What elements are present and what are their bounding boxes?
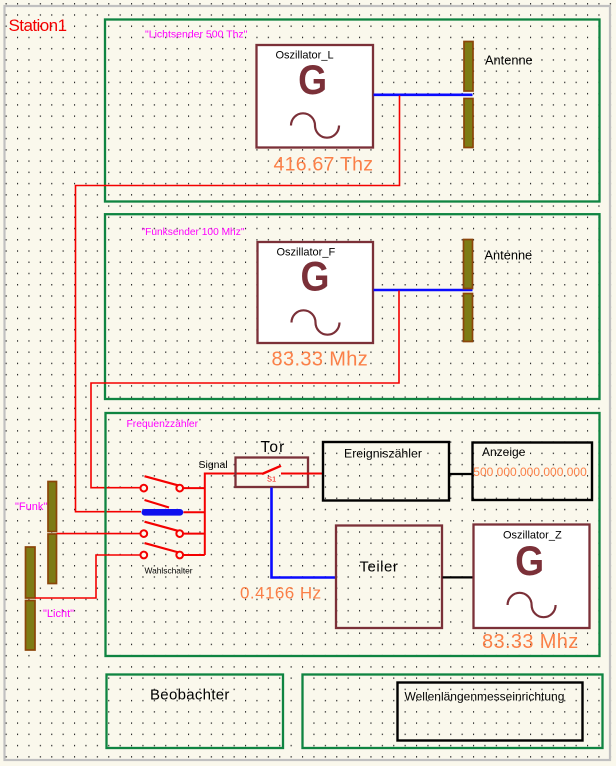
svg-text:500 000 000 000 000: 500 000 000 000 000 [473,465,587,479]
selector switch row 4 [140,543,204,558]
svg-text:G: G [298,56,327,103]
svg-text:Wellenlängenmesseinrichtung: Wellenlängenmesseinrichtung [405,690,565,704]
section box Wellenlaengenmesseinrichtung [303,675,603,749]
selector switch row 2 (closed, blue) [145,500,205,512]
antenna AN3 (Funk receive) [48,482,57,584]
svg-text:Tor: Tor [261,439,286,456]
svg-text:G: G [515,537,544,584]
switch S1 inside Tor [262,466,281,484]
wire blue Tor to Teiler [272,488,336,578]
svg-text:Frequenzzähler: Frequenzzähler [127,419,199,430]
section box Frequenzzaehler [106,413,600,656]
svg-text:0.4166 Hz: 0.4166 Hz [240,583,322,602]
svg-text:Station1: Station1 [9,16,67,35]
section box Lichtsender [105,20,600,202]
wire red funk antenna to switch row 3 [57,533,141,535]
counter box Ereigniszaehler [323,442,449,501]
svg-text:83.33 Mhz: 83.33 Mhz [272,348,369,370]
svg-text:G: G [301,252,330,299]
svg-text:"Lichtsender 500 Thz": "Lichtsender 500 Thz" [145,28,248,40]
wire black Ereigniszaehler to Anzeige [450,473,473,475]
svg-text:"Licht": "Licht" [43,608,74,620]
svg-text:416.67 Thz: 416.67 Thz [274,153,374,175]
svg-text:Signal: Signal [199,459,228,471]
selector switch row 1 [140,476,204,491]
wire red light transmitter tap to switch row 2 [76,96,400,512]
svg-text:Antenne: Antenne [485,52,533,67]
instrument box Wellenlaengenmesseinrichtung [398,683,583,741]
display box Anzeige [473,443,593,501]
selector switch row 3 [140,522,204,537]
wire red Tor to Ereigniszaehler [281,473,323,475]
svg-text:"Funksender 100 Mhz": "Funksender 100 Mhz" [142,227,245,238]
gate box Tor [236,458,309,488]
wire red funk transmitter tap to switch row 1 [91,291,399,488]
antenna AN4 (Licht receive) [26,547,36,650]
oscillator U2 Oszillator_F [258,242,374,343]
svg-text:Teiler: Teiler [360,558,399,575]
section box Funksender [105,214,600,399]
svg-text:Wahlschalter: Wahlschalter [145,566,193,576]
wire black Teiler to Oszillator_Z [443,576,474,578]
wire red switch common to Tor (Signal) [205,474,262,556]
svg-text:Ereigniszähler: Ereigniszähler [344,446,422,460]
antenna AN1 [464,42,473,148]
svg-text:Beobachter: Beobachter [150,687,230,704]
oscillator U3 Oszillator_Z [474,525,590,629]
wire blue oscillator L to antenna [374,94,473,97]
svg-text:"Funk": "Funk" [15,501,47,513]
wire red licht antenna to switch row 4 [35,555,141,598]
svg-text:S1: S1 [267,474,276,483]
svg-text:Anzeige: Anzeige [482,445,526,459]
wire blue oscillator F to antenna [374,289,473,292]
antenna AN2 [464,240,473,342]
section box Beobachter [107,675,284,749]
oscillator U1 Oszillator_L [257,45,374,148]
svg-text:Antenne: Antenne [485,248,533,263]
divider box Teiler [336,526,442,629]
svg-text:83.33 Mhz: 83.33 Mhz [482,631,579,653]
